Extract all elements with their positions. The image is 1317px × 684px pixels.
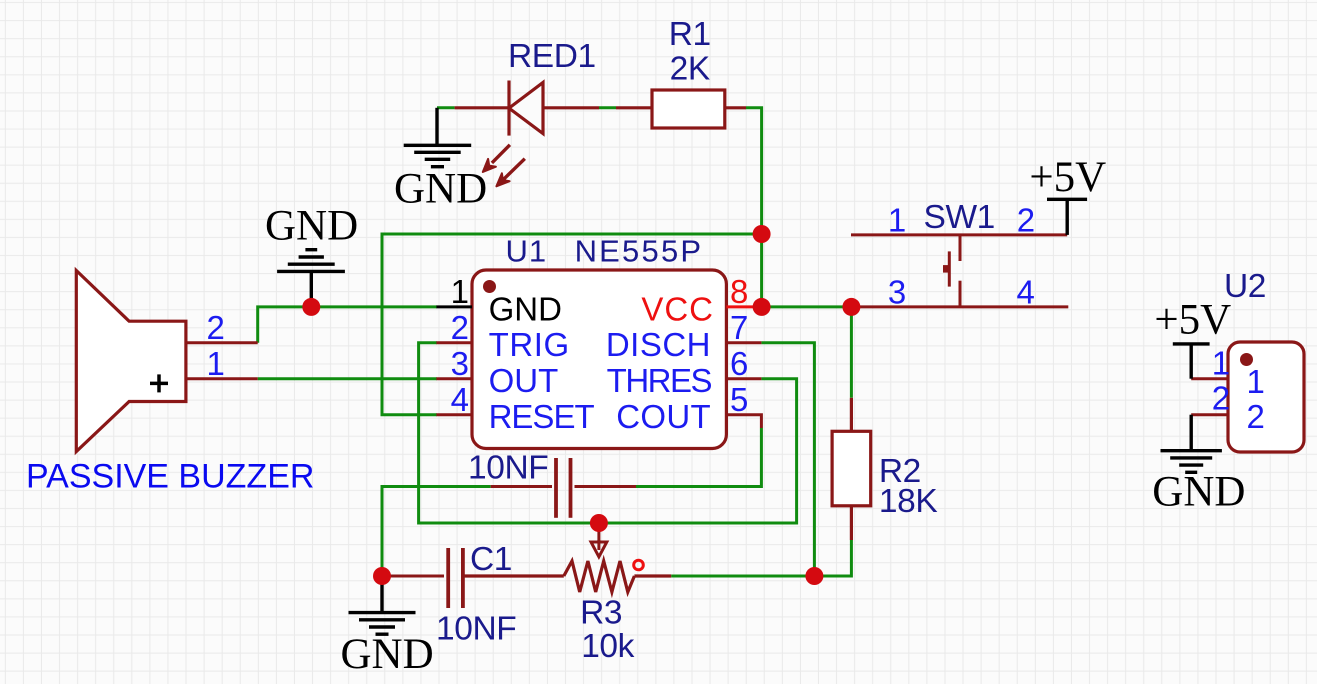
wire [671, 540, 851, 576]
pin 4 [436, 413, 472, 416]
svg-text:DISCH: DISCH [606, 326, 711, 363]
svg-text:7: 7 [730, 309, 748, 346]
ground [277, 250, 345, 307]
pin 3 [436, 377, 472, 380]
svg-text:1: 1 [451, 273, 469, 310]
wire [258, 377, 437, 380]
resistor R1 [616, 90, 746, 128]
ground [349, 576, 416, 634]
U2 pin 2 [1191, 413, 1228, 416]
svg-text:5: 5 [730, 381, 748, 418]
svg-text:R3: R3 [580, 594, 622, 631]
svg-text:3: 3 [451, 345, 469, 382]
svg-text:TRIG: TRIG [489, 326, 570, 363]
svg-text:SW1: SW1 [924, 199, 995, 236]
svg-text:GND: GND [341, 631, 434, 678]
pin 8 [726, 305, 761, 308]
power +5V [1047, 199, 1087, 235]
junction [753, 225, 771, 243]
svg-text:COUT: COUT [616, 398, 711, 435]
svg-text:2: 2 [1212, 379, 1230, 416]
junction [373, 567, 391, 585]
svg-text:10NF: 10NF [468, 450, 548, 487]
wire [636, 428, 761, 487]
svg-text:GND: GND [489, 291, 562, 328]
svg-text:GND: GND [394, 165, 487, 212]
buzzer LS1 [76, 271, 257, 452]
svg-text:10NF: 10NF [436, 611, 516, 648]
junction [805, 567, 823, 585]
pin 7 [726, 341, 761, 344]
switch SW1 [851, 235, 1068, 307]
wire [437, 106, 455, 109]
pin 6 [726, 377, 761, 380]
svg-text:2K: 2K [670, 50, 710, 87]
LED light arrow [496, 159, 524, 187]
svg-text:R1: R1 [669, 16, 711, 53]
pin 1 dot [483, 280, 496, 293]
potentiometer wiper arrow [591, 528, 607, 557]
op-amp U1 NE555P [472, 270, 726, 449]
LED light arrow [483, 145, 510, 172]
wire [746, 108, 762, 307]
wire [382, 234, 762, 415]
wire [761, 343, 814, 576]
wire [850, 307, 853, 398]
svg-text:OUT: OUT [489, 362, 559, 399]
capacitor C1 [382, 548, 463, 608]
wire [382, 487, 491, 577]
svg-text:8: 8 [730, 273, 748, 310]
connector U2 [1228, 342, 1304, 452]
svg-text:1: 1 [207, 345, 225, 382]
svg-text:3: 3 [888, 273, 906, 310]
pin 2 [436, 341, 472, 344]
svg-text:18K: 18K [879, 483, 937, 520]
svg-text:THRES: THRES [607, 362, 712, 399]
svg-text:1: 1 [1247, 363, 1265, 400]
wire [419, 343, 797, 523]
wire [599, 106, 616, 109]
svg-text:RED1: RED1 [508, 38, 596, 75]
svg-text:C1: C1 [470, 541, 512, 578]
capacitor 10NF [491, 458, 636, 518]
power +5V [1173, 344, 1210, 379]
svg-text:+5V: +5V [1154, 297, 1231, 344]
svg-text:2: 2 [207, 309, 225, 346]
svg-text:RESET: RESET [489, 398, 595, 435]
ground [1161, 415, 1222, 473]
svg-text:4: 4 [451, 381, 469, 418]
potentiometer R3 [463, 561, 671, 592]
svg-text:VCC: VCC [641, 291, 714, 328]
svg-text:U1: U1 [506, 234, 548, 269]
svg-text:2: 2 [1017, 202, 1035, 239]
svg-text:2: 2 [1247, 398, 1265, 435]
junction [842, 298, 860, 316]
svg-text:PASSIVE BUZZER: PASSIVE BUZZER [26, 458, 314, 496]
ground [404, 108, 472, 167]
svg-text:2: 2 [451, 309, 469, 346]
junction [302, 298, 320, 316]
LED RED1 [455, 81, 599, 136]
wiper terminal circle [634, 560, 644, 570]
svg-text:10k: 10k [581, 628, 634, 665]
pin 1 [436, 305, 472, 308]
wire [762, 305, 852, 308]
svg-text:6: 6 [730, 345, 748, 382]
svg-text:GND: GND [1152, 469, 1245, 516]
U2 pin 1 [1191, 377, 1228, 380]
junction [590, 514, 608, 532]
junction [753, 298, 771, 316]
svg-text:NE555P: NE555P [575, 234, 704, 269]
resistor R2 [832, 398, 871, 540]
pin 5 [726, 415, 761, 428]
svg-text:4: 4 [1017, 273, 1035, 310]
svg-text:+5V: +5V [1029, 154, 1106, 201]
wire [258, 307, 437, 343]
svg-text:1: 1 [888, 202, 906, 239]
svg-text:1: 1 [1212, 345, 1230, 382]
svg-text:GND: GND [265, 203, 358, 250]
